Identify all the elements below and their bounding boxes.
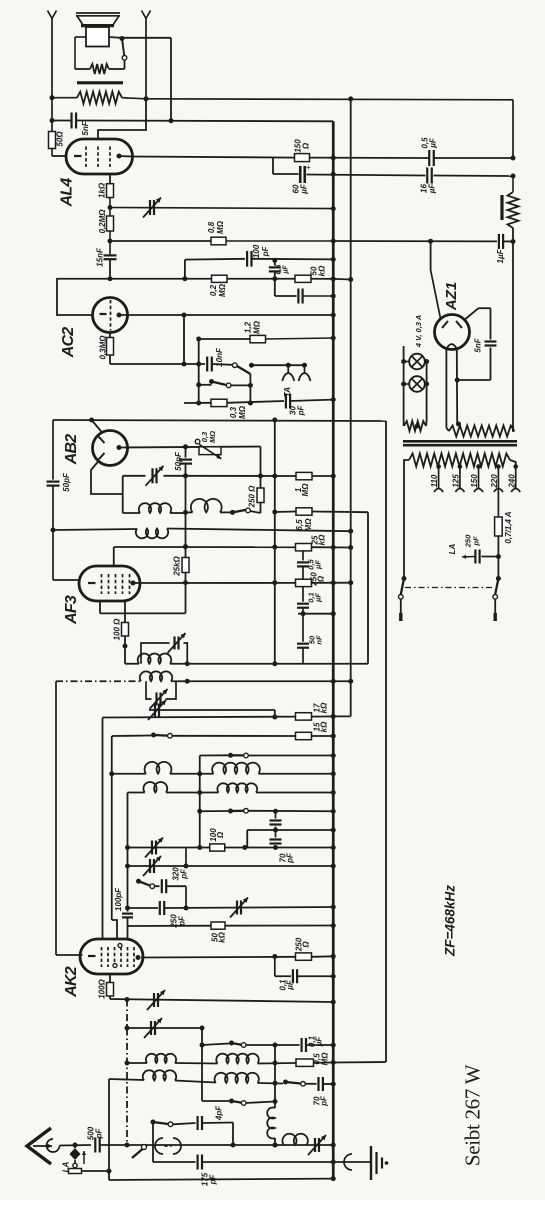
svg-text:0,7/1,4 A: 0,7/1,4 A [504,511,513,543]
svg-text:AF3: AF3 [63,595,80,625]
svg-text:10nF: 10nF [215,347,224,367]
svg-text:AB2: AB2 [63,434,80,466]
svg-text:µF: µF [300,183,309,195]
svg-text:MΩ: MΩ [238,405,247,419]
svg-text:6,5: 6,5 [295,519,304,531]
svg-text:125: 125 [452,474,461,488]
svg-text:µF: µF [286,979,295,991]
svg-text:µF: µF [315,1036,324,1048]
svg-text:50pF: 50pF [174,451,183,471]
svg-text:1µF: 1µF [496,248,505,263]
svg-text:kΩ: kΩ [218,931,227,942]
svg-text:AC2: AC2 [60,327,77,359]
svg-text:250 Ω: 250 Ω [248,485,257,509]
svg-text:0,2: 0,2 [209,284,218,296]
svg-text:5nF: 5nF [81,120,90,135]
svg-text:kΩ: kΩ [318,534,327,545]
svg-text:kΩ: kΩ [318,265,327,276]
svg-text:AK2: AK2 [63,966,80,998]
svg-text:Ω: Ω [317,575,326,583]
svg-text:Ω: Ω [216,831,225,839]
svg-text:kΩ: kΩ [320,702,329,713]
svg-text:110: 110 [430,474,439,487]
svg-text:MΩ: MΩ [301,483,310,497]
svg-text:µF: µF [429,137,438,149]
svg-text:pF: pF [180,868,189,880]
svg-text:pF: pF [297,405,306,417]
svg-text:nF: nF [314,635,323,645]
svg-text:pF: pF [261,246,270,258]
svg-text:100 Ω: 100 Ω [113,618,122,641]
svg-text:LA: LA [62,1161,71,1172]
svg-text:0,3MΩ: 0,3MΩ [99,335,108,360]
svg-text:0,2MΩ: 0,2MΩ [98,209,107,234]
svg-text:100: 100 [252,244,261,258]
svg-text:100Ω: 100Ω [98,978,107,998]
svg-text:Ω: Ω [302,142,311,150]
svg-text:µF: µF [313,593,322,603]
svg-text:240: 240 [507,474,516,489]
svg-text:pF: pF [286,852,295,864]
svg-text:µF: µF [428,183,437,195]
svg-text:0,8: 0,8 [207,221,216,233]
svg-text:100pF: 100pF [114,887,123,911]
svg-text:MΩ: MΩ [218,283,227,297]
svg-text:MΩ: MΩ [253,320,262,334]
svg-text:25kΩ: 25kΩ [173,555,182,576]
svg-text:15nF: 15nF [96,247,105,267]
svg-text:5nF: 5nF [474,337,483,352]
svg-text:AL4: AL4 [59,178,76,208]
svg-text:MΩ: MΩ [304,518,313,532]
svg-text:Seibt 267 W: Seibt 267 W [460,1064,484,1166]
svg-text:4 V, 0,3 A: 4 V, 0,3 A [414,315,423,348]
svg-text:MΩ: MΩ [208,431,217,443]
svg-text:µF: µF [282,265,289,275]
svg-text:kΩ: kΩ [320,721,329,732]
svg-text:1kΩ: 1kΩ [98,182,107,198]
svg-text:150: 150 [470,474,479,488]
svg-text:50Ω: 50Ω [56,131,65,147]
svg-text:µF: µF [313,560,322,570]
svg-text:LA: LA [448,543,457,554]
svg-text:4pF: 4pF [215,1105,224,1121]
svg-text:50pF: 50pF [62,472,71,492]
svg-text:0,5: 0,5 [275,265,282,275]
svg-text:0,3: 0,3 [229,406,238,418]
svg-text:1,2: 1,2 [244,321,253,333]
svg-text:MΩ: MΩ [321,1052,330,1066]
svg-text:pF: pF [95,1128,104,1140]
svg-text:MΩ: MΩ [216,220,225,234]
svg-text:pF: pF [471,536,480,547]
svg-text:220: 220 [490,474,499,489]
svg-text:AZ1: AZ1 [443,282,460,311]
svg-text:+: + [306,163,311,172]
svg-text:ZF=468kHz: ZF=468kHz [442,885,457,957]
svg-text:pF: pF [320,1095,329,1107]
svg-text:Ω: Ω [302,941,311,949]
